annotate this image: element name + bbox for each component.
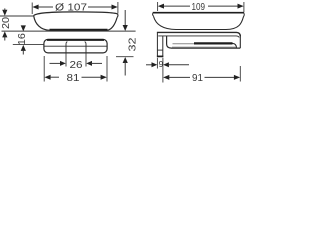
dimension 26 extension line right <box>85 54 87 67</box>
dimension 20 bottom arrow <box>2 31 7 37</box>
dimension 32 top shaft <box>124 10 126 28</box>
bracket arm outer edge <box>167 36 240 49</box>
dimension 81 extension line right <box>106 56 108 82</box>
dimension Ø107 extension line left <box>31 3 33 15</box>
dimension 9 extension line left <box>156 58 158 69</box>
bracket arm gray inner line <box>172 46 236 48</box>
holder mounting plate left edge <box>66 42 67 53</box>
dimension 9 extension line right <box>162 58 164 83</box>
dimension Ø107 arrow right <box>112 5 118 10</box>
dish front view underside right <box>107 17 117 30</box>
dish side view right end curl <box>242 13 245 17</box>
dimension 32 bottom shaft <box>124 62 126 76</box>
dimension 109 arrow left <box>158 4 164 9</box>
dimension 91 leader left <box>169 76 190 78</box>
dimension 9 leader left <box>146 64 152 66</box>
dimension 81 leader left <box>50 76 59 78</box>
shelf bottom thick edge <box>173 43 196 45</box>
holder front view outline <box>44 39 107 53</box>
svg-text:9: 9 <box>159 59 164 69</box>
dimension Ø107 leader left <box>38 6 53 8</box>
wall plate front edge <box>162 36 164 57</box>
wall plate back edge <box>156 33 158 57</box>
shelf front face <box>239 35 241 48</box>
shelf inner line <box>158 36 239 38</box>
holder mounting plate right edge <box>85 42 86 53</box>
dimension 20 bottom shaft <box>4 37 6 41</box>
dimension 81 extension line left <box>43 56 45 82</box>
svg-text:32: 32 <box>127 37 138 52</box>
dimension 81 leader right <box>82 76 102 78</box>
dimension 16 extension line bottom <box>13 44 44 46</box>
dish front view rim <box>34 12 118 16</box>
dimension 91 arrow left <box>163 75 169 80</box>
dimension 91 extension line right <box>239 66 241 82</box>
baseline A (rim plate / ext for 20,16,32) <box>2 30 136 32</box>
dish front view underside left <box>34 16 50 30</box>
dimension 9 arrow left <box>152 62 158 67</box>
dimension 109 arrow right <box>238 4 244 9</box>
dimension 26 arrow right <box>86 61 92 66</box>
dimension Ø107 arrow left <box>32 5 38 10</box>
wall plate cap line <box>157 49 162 51</box>
svg-text:20: 20 <box>1 17 12 29</box>
dimension 109 leader left <box>163 5 190 7</box>
dimension 16 bottom arrow <box>21 45 26 51</box>
holder front view top thick edge <box>47 39 104 41</box>
dimension 91 arrow right <box>234 75 240 80</box>
dimension 20 top shaft <box>4 8 6 11</box>
dimension 81 arrow right <box>101 75 107 80</box>
dimension 26 leader left <box>50 62 61 64</box>
dimension 20 top arrow <box>2 10 7 16</box>
shelf top edge <box>157 32 240 36</box>
dish side view bowl arc <box>154 16 244 29</box>
dimension 32 bottom extension line <box>116 56 134 58</box>
dimension 109 leader right <box>208 5 238 7</box>
dimension Ø107 extension line right <box>117 2 119 14</box>
dimension 9 leader right <box>168 64 189 66</box>
dish front view right end curl <box>116 14 119 17</box>
dish side view rim <box>153 12 244 14</box>
dish side view left end curl <box>153 13 154 17</box>
dimension 109 extension line left <box>157 2 159 11</box>
wall plate bottom edge <box>157 55 163 57</box>
dish front view bottom thick edge <box>50 29 108 31</box>
svg-text:91: 91 <box>192 73 203 84</box>
dimension 109 extension line right <box>243 2 245 13</box>
svg-text:109: 109 <box>192 2 206 13</box>
dimension 16 bottom shaft <box>22 50 24 55</box>
dimension 32 top arrow <box>123 25 128 31</box>
dimension 9 arrow right <box>163 62 169 67</box>
svg-text:81: 81 <box>67 73 81 84</box>
dimension 16 top arrow <box>21 25 26 31</box>
dimension 26 leader right <box>91 62 102 64</box>
dimension 32 bottom arrow <box>123 57 128 63</box>
svg-text:16: 16 <box>17 33 28 45</box>
dimension 91 leader right <box>205 76 235 78</box>
dimension Ø107 leader right <box>88 6 112 8</box>
dimension 26 arrow left <box>60 61 66 66</box>
dimension 20 extension line top <box>0 15 34 17</box>
dimension 81 arrow left <box>44 75 50 80</box>
dimension 26 extension line left <box>65 54 67 67</box>
holder front view inner line <box>45 45 107 47</box>
svg-text:26: 26 <box>70 60 84 71</box>
